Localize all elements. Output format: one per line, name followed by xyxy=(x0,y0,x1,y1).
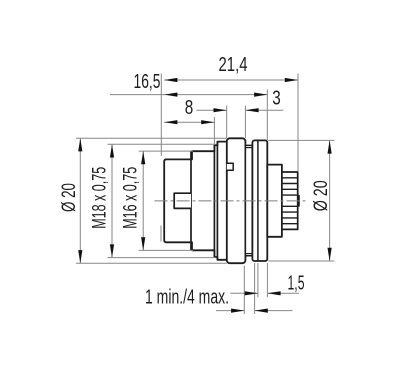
dimension line 1,5 right leader xyxy=(267,292,299,294)
extension line diameter20 right top xyxy=(268,139,334,141)
arrow 16,5 left xyxy=(164,93,177,97)
extension line diameter20 left bottom xyxy=(76,262,227,264)
svg-text:16,5: 16,5 xyxy=(134,71,161,93)
rear solder contact block xyxy=(282,172,298,229)
extension line rear end xyxy=(297,74,299,172)
solder block ridge 2 xyxy=(282,183,298,185)
dimension line 21,4 xyxy=(164,79,298,81)
nut keyway notch xyxy=(227,163,233,170)
washer inner line bottom xyxy=(245,253,252,255)
extension line M18 bottom xyxy=(108,257,216,259)
center contact bump xyxy=(298,196,299,206)
arrow diameter20 left up xyxy=(78,138,82,151)
solder block ridge 5 xyxy=(282,205,298,207)
dim line M16 xyxy=(142,151,144,250)
dim line diameter 20 left xyxy=(79,138,81,263)
solder block ridge 6 xyxy=(282,211,298,213)
solder block ridge 4 xyxy=(282,194,298,196)
extension line nut left xyxy=(226,106,228,139)
extension line diameter20 right bottom xyxy=(268,260,334,262)
svg-text:1 min./4 max.: 1 min./4 max. xyxy=(145,287,229,309)
dimension line 16,5 xyxy=(110,94,267,96)
arrow 21,4 right xyxy=(285,78,298,82)
extension line M16 top xyxy=(139,150,193,152)
arrow diameter20 left down xyxy=(78,250,82,263)
solder block ridge 1 xyxy=(282,177,298,179)
extension line panel right xyxy=(254,263,256,314)
extension line nut right xyxy=(244,106,246,139)
dimension line panel right leader xyxy=(255,310,293,312)
shoulder line barrel B/C xyxy=(213,145,215,257)
extension line panel left xyxy=(243,266,245,314)
arrow 8 right xyxy=(201,120,214,124)
svg-text:Ø 20: Ø 20 xyxy=(59,183,80,212)
dim line M18 xyxy=(111,144,113,257)
arrow 1,5 right outside xyxy=(267,291,280,295)
flange plate xyxy=(252,140,267,261)
dimension line panel left leader xyxy=(216,310,244,312)
svg-text:1,5: 1,5 xyxy=(288,273,305,295)
shoulder line barrel C/C2 xyxy=(216,142,218,260)
extension line diameter20 left top xyxy=(76,137,227,139)
arrow M16 up xyxy=(141,151,145,164)
svg-text:M18 x 0,75: M18 x 0,75 xyxy=(90,167,111,229)
arrow 16,5 right xyxy=(254,93,267,97)
extension line 1,5 left xyxy=(257,263,259,297)
arrow diameter20 right down xyxy=(328,248,332,261)
dimension line 3 right leader xyxy=(245,109,283,111)
arrow 3 left outside xyxy=(214,108,227,112)
arrow 8 left xyxy=(164,120,177,124)
solder block ridge 3 xyxy=(282,188,298,190)
svg-text:21,4: 21,4 xyxy=(219,54,248,76)
extension line front face upper xyxy=(160,74,162,157)
solder block ridge 8 xyxy=(282,223,298,225)
arrow 3 right outside xyxy=(245,108,258,112)
svg-text:M16 x 0,75: M16 x 0,75 xyxy=(120,167,141,229)
arrow panel right outside xyxy=(255,309,268,313)
arrow 1,5 left outside xyxy=(245,291,258,295)
shoulder line barrel A/B xyxy=(190,151,192,250)
dimension line 8 xyxy=(164,121,214,123)
extension line 8 right xyxy=(213,117,215,145)
arrow M18 up xyxy=(110,144,114,157)
dimension line 1,5 left leader xyxy=(230,292,258,294)
washer xyxy=(245,145,252,255)
svg-text:3: 3 xyxy=(272,88,281,110)
extension line M16 bottom xyxy=(139,249,193,251)
connector front barrels silhouette xyxy=(164,142,227,260)
dim line diameter 20 right xyxy=(329,140,331,261)
extension line flange right xyxy=(266,90,268,141)
arrow M16 down xyxy=(141,237,145,250)
center stub contact xyxy=(174,193,191,208)
washer inner line top xyxy=(245,147,252,149)
solder block ridge 7 xyxy=(282,217,298,219)
rear body xyxy=(267,165,282,237)
extension line 1,5 right xyxy=(266,263,268,297)
extension line front face lower stub xyxy=(160,226,162,242)
flange plate inner line xyxy=(257,140,259,261)
arrow M18 down xyxy=(110,244,114,257)
svg-text:Ø 20: Ø 20 xyxy=(311,180,332,211)
svg-text:8: 8 xyxy=(185,97,194,119)
panel nut (3mm) xyxy=(227,138,246,263)
arrow panel left outside xyxy=(231,309,244,313)
arrow diameter20 right up xyxy=(328,140,332,153)
dimension line 3 left leader xyxy=(197,109,227,111)
arrow 21,4 left xyxy=(164,78,177,82)
centerline xyxy=(155,200,308,202)
extension line M18 top xyxy=(108,143,216,145)
